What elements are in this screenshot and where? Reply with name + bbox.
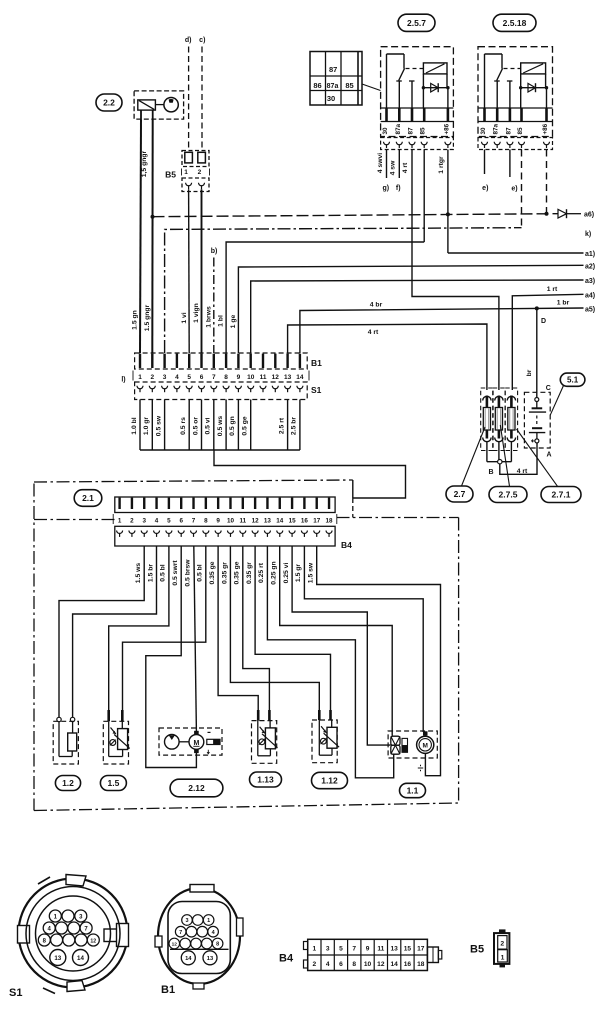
svg-text:87a: 87a <box>327 83 339 90</box>
svg-text:18: 18 <box>326 518 334 525</box>
dashed wire relay 2.5.18 pin 85 to net k <box>521 150 523 228</box>
svg-text:0.35 gr: 0.35 gr <box>221 562 228 584</box>
svg-text:12: 12 <box>272 374 280 381</box>
svg-text:3: 3 <box>142 518 146 525</box>
svg-text:+86: +86 <box>542 123 549 134</box>
svg-text:14: 14 <box>276 518 284 525</box>
svg-text:0.5 bl: 0.5 bl <box>197 564 204 581</box>
svg-text:D: D <box>541 318 546 325</box>
wire B4 pin 14 to component 1.1 valve top <box>280 546 393 736</box>
svg-text:1.5 gn: 1.5 gn <box>132 310 139 330</box>
connector S1 face view (round) <box>18 875 129 994</box>
net a6 wire (long dash) <box>153 214 558 217</box>
connector 2.1 label oval <box>74 490 102 507</box>
net a3 : B1 pin 10 <box>251 280 584 353</box>
svg-text:11: 11 <box>377 946 384 953</box>
svg-text:4 rt: 4 rt <box>368 329 379 336</box>
net k wire (dash-dot, from B1 pin 3) <box>165 228 522 353</box>
svg-text:5: 5 <box>187 374 191 381</box>
svg-text:87: 87 <box>408 127 415 135</box>
svg-text:g): g) <box>382 185 389 192</box>
junction net a6 / wire 1.5 gngr <box>151 215 155 219</box>
net 4 rt : B1 pin 13 to fuse 2.7 <box>288 324 487 390</box>
svg-text:3: 3 <box>163 374 167 381</box>
svg-text:2.5 br: 2.5 br <box>291 417 298 435</box>
svg-text:0.5 brsw: 0.5 brsw <box>184 559 191 587</box>
svg-text:1.5 ws: 1.5 ws <box>135 563 142 584</box>
svg-text:0.5 rs: 0.5 rs <box>180 417 187 435</box>
svg-text:9: 9 <box>216 518 220 525</box>
relay 2.5.18 suppression diode <box>519 83 548 108</box>
svg-text:7: 7 <box>352 946 356 953</box>
connector B4 (female 18-pin) <box>115 526 335 546</box>
svg-text:2.1: 2.1 <box>82 493 94 503</box>
wire 2.2 to B1 pin 2 (1.5 gngr) <box>152 110 154 119</box>
junction net a5 / battery feed D <box>535 306 539 310</box>
svg-text:f): f) <box>396 185 401 192</box>
wire B4 pin 15 to component 1.1 valve left <box>292 546 391 745</box>
component 2.12 label oval <box>170 779 223 797</box>
svg-text:1.13: 1.13 <box>257 775 274 785</box>
wire S1 pin 1 (1.0 bl) <box>139 400 141 451</box>
svg-text:17: 17 <box>417 946 425 953</box>
svg-text:3: 3 <box>326 946 330 953</box>
svg-text:5.1: 5.1 <box>567 376 579 385</box>
svg-text:2: 2 <box>130 518 134 525</box>
svg-text:8: 8 <box>204 518 208 525</box>
relay 2.5.18 terminal strip <box>478 108 553 122</box>
net 4 br / a5 : B1 pin 14 to right edge and battery <box>300 308 584 353</box>
svg-text:1 brws: 1 brws <box>205 306 212 328</box>
svg-text:12: 12 <box>172 942 178 948</box>
svg-text:l): l) <box>121 377 125 384</box>
svg-text:2.7.5: 2.7.5 <box>499 490 518 500</box>
svg-text:7: 7 <box>179 930 182 936</box>
svg-text:M: M <box>422 743 427 750</box>
relay 2.5.18 switch contact (30/87a/87) <box>485 54 513 108</box>
svg-text:2.7.1: 2.7.1 <box>552 490 571 500</box>
connector B1 face pins <box>169 915 223 965</box>
component 1.2 label oval <box>55 776 80 791</box>
component 1.12 label oval <box>312 772 348 788</box>
net 1 rt / a4 : fuse 2.7.1 to right edge <box>512 294 583 390</box>
wire B5 pin 1 to B1 pin 5 (1 vi) <box>188 190 191 354</box>
wire relay 2.5.7 pin 87a stub (4 sw) <box>398 150 400 179</box>
svg-text:B: B <box>488 469 493 476</box>
net 1 bl : B1 pin 8 to relay 2.5.7 pin 85 <box>226 242 424 353</box>
svg-text:85: 85 <box>517 127 524 135</box>
svg-text:0.35 ge: 0.35 ge <box>234 561 241 584</box>
svg-text:6: 6 <box>200 374 204 381</box>
svg-text:C: C <box>546 385 551 392</box>
svg-text:6: 6 <box>179 518 183 525</box>
svg-text:1,5 gngr: 1,5 gngr <box>141 150 148 177</box>
svg-text:0.5 sw: 0.5 sw <box>155 415 162 436</box>
relay 2.5.7 switch contact (30/87a/87) <box>387 54 415 108</box>
svg-text:9: 9 <box>366 946 370 953</box>
wire B5 pin 2 to B1 pin 6 (1 vign) <box>201 190 203 354</box>
svg-text:2: 2 <box>500 940 504 947</box>
svg-text:4: 4 <box>326 961 330 968</box>
svg-text:87a: 87a <box>493 123 500 134</box>
relay 2.5.18 terminal numbers 30 87a 87 85 +86 <box>480 123 549 134</box>
wire S1 pin 3 (0.5 sw) <box>164 400 166 451</box>
connector B4 (male 18-pin) <box>115 497 335 513</box>
wire D : net a5 to battery 5.1 terminal C <box>536 308 538 397</box>
svg-text:1.5 br: 1.5 br <box>147 564 154 582</box>
svg-text:B1: B1 <box>161 984 175 996</box>
fuse 2.7 label oval and leader <box>462 427 486 486</box>
relay 2.5.18 socket row <box>478 138 553 150</box>
wire 2.2 to B1 pin 1 (1.5 gn) <box>140 110 142 119</box>
harness boundary box (dash-dot) <box>34 480 459 811</box>
connector B5 male housing <box>182 151 209 167</box>
svg-text:15: 15 <box>289 518 297 525</box>
svg-text:M: M <box>193 740 199 747</box>
svg-text:30: 30 <box>327 94 335 103</box>
connector B4 face view (18-pin) <box>304 939 442 970</box>
svg-text:1.0 bl: 1.0 bl <box>131 417 138 434</box>
wire relay 2.5.18 pin 30 stub <box>484 150 486 175</box>
svg-text:S1: S1 <box>311 385 322 395</box>
svg-text:4 sw: 4 sw <box>390 160 397 175</box>
component 1.1 (valve + motor unit) <box>388 731 437 758</box>
svg-text:12: 12 <box>377 961 385 968</box>
svg-text:4 rt: 4 rt <box>517 468 528 475</box>
wire S1 harness to connector 2.1/B4 <box>214 450 406 498</box>
svg-text:4: 4 <box>155 518 159 525</box>
svg-text:0.35 ge: 0.35 ge <box>209 561 216 584</box>
junction relay 2.5.18 pin 86 / net a6 <box>545 212 549 216</box>
svg-text:14: 14 <box>296 374 304 381</box>
svg-text:3: 3 <box>185 918 188 924</box>
wire B4 pin 13 to component 1.1 valve return <box>267 546 393 778</box>
ground mark below 1.1 motor <box>418 765 423 771</box>
wire S1 pin 9 (0.5 gn) <box>237 400 239 451</box>
svg-text:a1): a1) <box>585 251 595 258</box>
relay 2.5.7 label oval <box>398 14 435 31</box>
svg-text:2.5 rt: 2.5 rt <box>278 417 285 434</box>
svg-text:1 rt: 1 rt <box>547 286 558 293</box>
relay terminal layout detail box (30/85/86/87/87a) <box>310 52 381 106</box>
wire S1 pin 13 (2.5 rt) <box>287 400 289 451</box>
svg-text:1.5 gngr: 1.5 gngr <box>144 304 151 331</box>
svg-text:13: 13 <box>54 955 61 962</box>
wire B4 pin 10 to component 1.12 left <box>230 546 319 712</box>
svg-text:9: 9 <box>237 374 241 381</box>
svg-text:1 bl: 1 bl <box>218 315 225 327</box>
component 1.13 label oval <box>250 772 282 787</box>
svg-text:A: A <box>547 452 552 459</box>
svg-text:1: 1 <box>501 954 505 961</box>
svg-text:b): b) <box>211 248 218 255</box>
svg-text:2.2: 2.2 <box>103 98 115 108</box>
svg-text:0.5 swrt: 0.5 swrt <box>172 560 179 586</box>
svg-text:6: 6 <box>339 961 343 968</box>
svg-text:a6): a6) <box>584 212 594 219</box>
svg-text:0.5 bl: 0.5 bl <box>160 564 167 581</box>
relay 2.5.7 coil <box>406 63 448 88</box>
relay 2.5.18 label oval <box>493 14 536 31</box>
svg-text:1.2: 1.2 <box>62 778 74 788</box>
wire B4 pin 8 to component 1.5 right <box>123 546 206 712</box>
svg-text:8: 8 <box>352 961 356 968</box>
svg-text:0.25 rt: 0.25 rt <box>258 562 265 583</box>
svg-text:13: 13 <box>264 518 272 525</box>
connector B5 female housing <box>182 178 209 192</box>
svg-text:4 br: 4 br <box>370 302 383 309</box>
svg-text:14: 14 <box>390 961 398 968</box>
dashed wire relay 2.5.18 pin 86 to net a6 <box>546 150 548 214</box>
wire S1 pin 6 (0.5 or) <box>201 400 203 451</box>
svg-text:br: br <box>526 369 533 376</box>
fuse 2.7.5 label oval and leader <box>500 425 509 486</box>
junction relay 2.5.7 pin 86 / net a6 <box>446 212 450 216</box>
svg-text:16: 16 <box>404 961 412 968</box>
wire relay 2.5.7 pin 87 to fuse 2.7.5 (4 rt) <box>412 150 499 391</box>
svg-text:7: 7 <box>192 518 196 525</box>
svg-text:4 swvi: 4 swvi <box>377 153 384 174</box>
wire relay 2.5.18 pin 87 stub <box>509 150 511 178</box>
component 2.2 (pressure switch + sender) box <box>134 91 184 119</box>
svg-text:1.12: 1.12 <box>321 776 338 786</box>
svg-text:85: 85 <box>345 81 353 90</box>
wire relay 2.5.7 pin 30 stub (4 swvi) <box>386 150 388 179</box>
relay 2.5.7 housing <box>381 47 454 137</box>
svg-text:2.12: 2.12 <box>188 783 205 793</box>
svg-text:87: 87 <box>329 65 337 74</box>
fuse 2.7 <box>481 388 493 462</box>
component 1.1 label oval <box>400 783 426 797</box>
connector B1 (male 14-pin) <box>135 353 308 369</box>
svg-text:1: 1 <box>138 374 142 381</box>
svg-text:14: 14 <box>77 955 84 962</box>
connector B5 face view (2-pin) <box>494 930 509 967</box>
svg-text:1: 1 <box>313 946 317 953</box>
wire B4 pin 7 to component 2.12 motor <box>194 546 197 731</box>
svg-text:0.5 gn: 0.5 gn <box>229 416 236 436</box>
svg-text:S1: S1 <box>9 987 22 999</box>
dashed wire d) to connector B5 <box>188 47 190 151</box>
S1 harness bus <box>140 449 300 451</box>
relay 2.5.7 terminal numbers 30 87a 87 85 +86 <box>382 123 450 134</box>
dashed wire c) to connector B5 <box>201 47 203 151</box>
wire B4 pin 6 to component 2.12 return <box>146 546 197 768</box>
svg-text:a5): a5) <box>585 307 595 314</box>
svg-text:12: 12 <box>252 518 260 525</box>
svg-text:c): c) <box>199 37 205 44</box>
relay 2.5.7 <box>381 14 454 149</box>
svg-text:1 vi: 1 vi <box>181 312 188 323</box>
svg-text:13: 13 <box>207 956 214 962</box>
wire S1 pin 2 (1.0 gr) <box>151 400 153 451</box>
svg-text:17: 17 <box>313 518 321 525</box>
svg-text:85: 85 <box>420 127 427 135</box>
svg-text:11: 11 <box>239 518 246 525</box>
connector S1 face pins <box>38 910 99 966</box>
component 2.2 label oval <box>96 94 122 111</box>
svg-text:11: 11 <box>260 374 267 381</box>
connector B1 face view (round) <box>155 885 243 990</box>
battery 5.1 <box>524 392 550 448</box>
svg-text:1 br: 1 br <box>557 300 570 307</box>
wire B4 pin 3 to component 1.2 left <box>59 546 144 717</box>
svg-text:13: 13 <box>390 946 398 953</box>
fuse 2.7.1 label oval and leader <box>517 429 558 486</box>
component 1.5 (temperature sensor) <box>103 721 129 764</box>
svg-text:15: 15 <box>404 946 412 953</box>
net a2 : B1 pin 9 <box>238 265 583 353</box>
svg-text:0.5 or: 0.5 or <box>192 417 199 435</box>
svg-text:14: 14 <box>185 956 192 962</box>
svg-text:12: 12 <box>90 938 96 944</box>
svg-text:5: 5 <box>339 946 343 953</box>
svg-text:e): e) <box>511 186 517 193</box>
fuse 2.7.1 <box>505 388 517 462</box>
wire S1 pin 10 (0.5 ge) <box>250 400 252 451</box>
diode a6 <box>558 209 581 218</box>
connector B4 pin numbers 1-18 <box>113 514 337 525</box>
fuse bus node B <box>487 443 537 474</box>
svg-text:1.5 gr: 1.5 gr <box>295 564 302 582</box>
wire B4 pin 9 to component 1.13 left <box>218 546 258 712</box>
svg-text:B1: B1 <box>311 358 322 368</box>
wire B4 pin 5 to component 1.5 left <box>109 546 169 712</box>
svg-text:13: 13 <box>284 374 292 381</box>
svg-text:8: 8 <box>216 942 219 948</box>
svg-text:2: 2 <box>313 961 317 968</box>
svg-text:30: 30 <box>480 127 487 135</box>
svg-text:0.25 vi: 0.25 vi <box>283 563 290 584</box>
svg-text:2.5.7: 2.5.7 <box>407 18 426 28</box>
svg-text:1: 1 <box>118 518 122 525</box>
wire S1 pin 8 (0.5 ws) <box>225 400 227 451</box>
svg-text:2.7: 2.7 <box>454 489 466 499</box>
wire S1 pin 5 (0.5 rs) <box>188 400 190 451</box>
wire B4 pin 16 to component 1.1 motor+ <box>304 546 423 732</box>
svg-text:8: 8 <box>224 374 228 381</box>
connector B1/S1 pin numbers 1-14 <box>133 371 309 382</box>
svg-text:18: 18 <box>417 961 425 968</box>
svg-text:30: 30 <box>382 127 389 135</box>
relay 2.5.18 housing <box>478 47 553 137</box>
svg-text:B5: B5 <box>165 170 176 180</box>
svg-text:10: 10 <box>364 961 372 968</box>
svg-text:1 vign: 1 vign <box>193 303 200 323</box>
svg-text:4: 4 <box>175 374 179 381</box>
relay 2.5.7 socket row <box>381 138 454 150</box>
wire relay 2.5.7 pin 85 down to net 1 bl <box>423 150 425 243</box>
svg-text:4 rt: 4 rt <box>402 162 409 173</box>
svg-text:a3): a3) <box>585 278 595 285</box>
svg-text:B4: B4 <box>279 953 294 965</box>
net b) wire (dash-dot, B1 pin 7) <box>213 258 215 354</box>
svg-text:d): d) <box>185 37 192 44</box>
component 2.12 (pump + motor unit) <box>159 728 222 755</box>
relay 2.5.18 <box>478 14 553 149</box>
svg-text:0.5 vi: 0.5 vi <box>205 417 212 434</box>
svg-text:1.0 gr: 1.0 gr <box>143 417 150 435</box>
component 1.5 label oval <box>100 776 126 791</box>
net a1 : from relay 2.5.7 pin 86 <box>448 252 584 254</box>
wire S1 pin 7 (0.5 vi) <box>213 400 215 451</box>
svg-text:1: 1 <box>207 918 210 924</box>
svg-text:2.5.18: 2.5.18 <box>503 18 527 28</box>
svg-text:B4: B4 <box>341 540 352 550</box>
svg-text:5: 5 <box>167 518 171 525</box>
svg-text:86: 86 <box>313 81 321 90</box>
svg-text:2: 2 <box>150 374 154 381</box>
wire relay 2.5.7 pin 86 (1 rtgr) to net a1 <box>447 150 449 254</box>
svg-text:k): k) <box>585 231 591 238</box>
svg-text:10: 10 <box>247 374 255 381</box>
svg-text:1 rtgr: 1 rtgr <box>438 156 445 174</box>
svg-text:0.35 gr: 0.35 gr <box>246 562 253 584</box>
svg-text:+86: +86 <box>443 123 450 134</box>
component 1.13 (temperature sensor) <box>252 721 278 764</box>
svg-text:a2): a2) <box>585 263 595 270</box>
wire B4 pin 17 to component 1.1 motor return <box>317 546 441 776</box>
component 5.1 label oval and leader <box>550 386 563 416</box>
svg-text:0.25 gn: 0.25 gn <box>271 561 278 584</box>
relay 2.5.7 suppression diode <box>422 83 450 108</box>
svg-text:1.5: 1.5 <box>107 778 119 788</box>
svg-text:2: 2 <box>198 169 202 176</box>
wire B4 pin 4 to component 1.2 right <box>73 546 157 717</box>
svg-text:87a: 87a <box>395 123 402 134</box>
wire B4 pin 12 to component 1.12 right <box>255 546 330 712</box>
svg-text:1: 1 <box>184 169 188 176</box>
svg-text:1 ge: 1 ge <box>230 314 237 328</box>
wire S1 pin 14 (2.5 br) <box>299 400 301 451</box>
svg-text:0.5 ws: 0.5 ws <box>217 416 224 437</box>
connector S1 (female 14-pin) <box>135 382 308 400</box>
svg-text:B5: B5 <box>470 944 484 956</box>
svg-text:1.1: 1.1 <box>407 786 419 796</box>
svg-text:16: 16 <box>301 518 309 525</box>
component 1.2 (resistor sensor) <box>53 717 78 764</box>
fuse 2.7.5 <box>493 388 505 462</box>
svg-text:0.5 ge: 0.5 ge <box>242 416 249 435</box>
relay 2.5.18 coil <box>504 63 546 88</box>
svg-text:87: 87 <box>505 127 512 135</box>
svg-text:7: 7 <box>212 374 216 381</box>
wire B4 pin 11 to component 1.13 right <box>243 546 270 712</box>
relay 2.5.7 terminal strip <box>381 108 454 122</box>
svg-text:1.5 sw: 1.5 sw <box>308 562 315 583</box>
component 1.12 (temperature sensor) <box>312 720 339 763</box>
svg-text:e): e) <box>482 185 488 192</box>
svg-text:10: 10 <box>227 518 235 525</box>
svg-text:a4): a4) <box>585 293 595 300</box>
